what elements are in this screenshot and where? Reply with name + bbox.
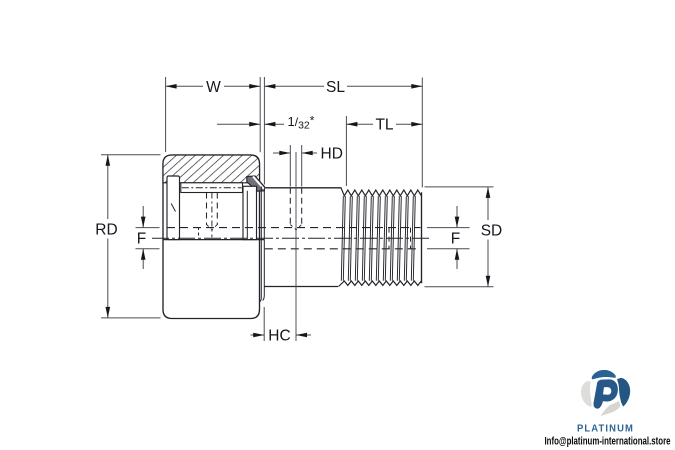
svg-text:Info@platinum-international.st: Info@platinum-international.store bbox=[545, 436, 671, 448]
svg-text:HD: HD bbox=[321, 146, 343, 163]
svg-text:F: F bbox=[137, 231, 146, 248]
svg-text:HC: HC bbox=[268, 328, 290, 345]
svg-text:SL: SL bbox=[326, 79, 345, 96]
svg-text:SD: SD bbox=[481, 222, 503, 239]
svg-text:F: F bbox=[451, 231, 460, 248]
svg-text:RD: RD bbox=[95, 221, 117, 238]
svg-text:PLATINUM: PLATINUM bbox=[577, 424, 634, 435]
svg-text:TL: TL bbox=[375, 117, 393, 134]
svg-text:W: W bbox=[206, 79, 221, 96]
